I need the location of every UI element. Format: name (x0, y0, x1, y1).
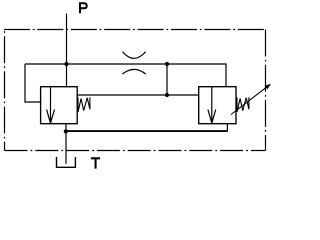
orifice restrictor upper arc (122, 52, 145, 59)
enclosure dash-dot border top (4, 29, 266, 31)
port T label (91, 157, 100, 168)
wire pilot rail to valve V2 (77, 94, 199, 96)
wire pilot drop x=167 (166, 64, 168, 95)
node junction P x top rail (64, 62, 68, 66)
wire tank rail (66, 130, 228, 132)
wire valve V2 bottom drop (226, 124, 228, 132)
port P label (79, 2, 88, 13)
valve V2 spring adjustable (237, 97, 249, 112)
valve V2 adjustment arrow (231, 87, 267, 114)
valve V2 flow arrow (208, 87, 216, 124)
orifice restrictor lower arc (122, 69, 145, 74)
node junction top rail x=167 (165, 62, 169, 66)
wire top rail with drop to valve V2 (25, 64, 226, 87)
node junction pilot rail x=167 (165, 93, 169, 97)
tank symbol (57, 157, 76, 167)
enclosure dash-dot border left (4, 30, 6, 151)
enclosure dash-dot border bottom (5, 150, 266, 152)
valve V2 body (199, 87, 236, 124)
valve V1 flow arrow (47, 87, 55, 124)
valve V1 spring (78, 97, 90, 112)
wire T drain vertical (65, 124, 67, 164)
wire pilot to valve V1 (left drop) (25, 64, 41, 102)
node junction tank rail (64, 129, 68, 133)
enclosure dash-dot border right (265, 30, 267, 151)
valve V1 body (41, 87, 78, 124)
wire P supply vertical (66, 14, 68, 88)
